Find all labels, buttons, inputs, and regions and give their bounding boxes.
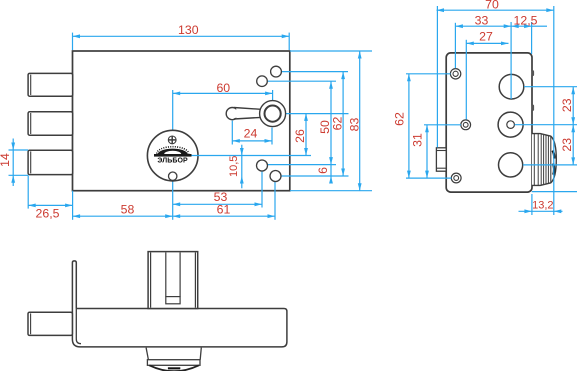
svg-text:10,5: 10,5 bbox=[228, 156, 240, 177]
svg-text:24: 24 bbox=[244, 127, 258, 141]
svg-text:130: 130 bbox=[178, 23, 199, 37]
svg-text:60: 60 bbox=[216, 81, 230, 95]
svg-text:23: 23 bbox=[560, 138, 574, 152]
svg-text:27: 27 bbox=[479, 30, 493, 44]
svg-text:31: 31 bbox=[411, 133, 425, 147]
svg-text:70: 70 bbox=[485, 0, 499, 12]
svg-text:ЭЛЬБОР: ЭЛЬБОР bbox=[157, 158, 188, 165]
svg-text:61: 61 bbox=[217, 203, 231, 217]
svg-text:26: 26 bbox=[293, 129, 307, 143]
svg-text:13,2: 13,2 bbox=[532, 200, 553, 212]
svg-text:23: 23 bbox=[560, 98, 574, 112]
svg-text:6: 6 bbox=[316, 167, 330, 174]
svg-text:12,5: 12,5 bbox=[514, 13, 538, 27]
svg-text:33: 33 bbox=[475, 13, 489, 27]
svg-text:62: 62 bbox=[392, 112, 406, 126]
svg-text:62: 62 bbox=[330, 117, 344, 131]
svg-text:58: 58 bbox=[121, 202, 135, 216]
svg-text:26,5: 26,5 bbox=[36, 206, 60, 220]
svg-text:14: 14 bbox=[0, 153, 12, 167]
svg-text:83: 83 bbox=[347, 118, 361, 132]
